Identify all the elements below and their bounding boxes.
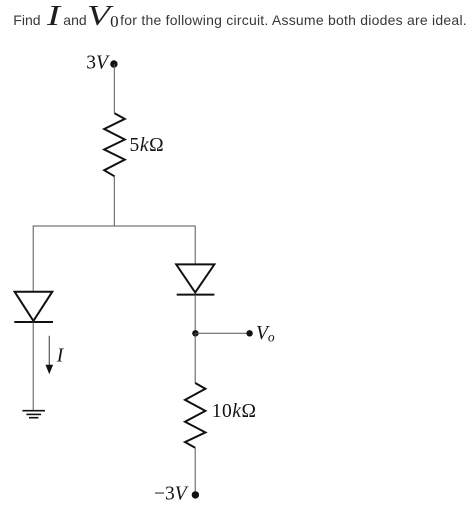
node 3V terminal dot xyxy=(110,60,117,67)
svg-text:10kΩ: 10kΩ xyxy=(212,401,257,422)
svg-text:−3V: −3V xyxy=(154,484,189,505)
wire from 3V to resistor R1 xyxy=(113,64,115,113)
svg-text:I: I xyxy=(56,346,65,367)
diode D1 triangle xyxy=(15,292,53,321)
svg-text:5kΩ: 5kΩ xyxy=(130,135,165,156)
current arrow I xyxy=(46,336,54,375)
wire from diode D1 to ground xyxy=(32,322,34,410)
wire left branch down to diode D1 xyxy=(32,226,34,292)
diode D2 cathode bar xyxy=(177,294,215,296)
wire stub to Vo terminal xyxy=(195,332,249,334)
label -3V xyxy=(154,484,189,505)
diode D2 triangle xyxy=(176,264,214,292)
resistor R1 5k ohm zigzag xyxy=(104,113,125,176)
node -3V terminal dot xyxy=(192,491,199,498)
node junction dot xyxy=(192,330,198,336)
svg-text:Vo: Vo xyxy=(256,323,275,345)
svg-text:3V: 3V xyxy=(86,52,110,73)
ground symbol xyxy=(22,411,45,418)
wire horizontal bus xyxy=(33,225,195,227)
wire from resistor R1 to horizontal bus xyxy=(113,176,115,226)
label 3V xyxy=(86,52,110,73)
diode D1 cathode bar xyxy=(14,321,53,323)
wire from resistor R2 to -3V terminal xyxy=(194,448,196,495)
wire right branch down to diode D2 xyxy=(194,226,196,265)
label 5k ohm xyxy=(130,135,165,156)
node Vo terminal dot xyxy=(246,330,252,336)
label I xyxy=(56,346,65,367)
label 10k ohm xyxy=(212,401,257,422)
wire from node to resistor R2 xyxy=(194,333,196,383)
label Vo xyxy=(256,323,275,345)
wire from diode D2 to node Vo xyxy=(194,295,196,334)
resistor R2 10k ohm zigzag xyxy=(185,383,205,448)
